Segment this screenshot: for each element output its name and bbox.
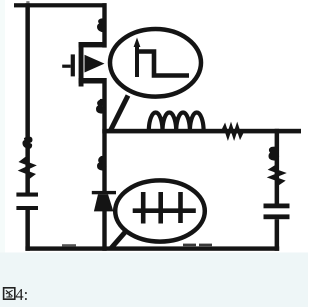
diode D1 anode triangle [94, 194, 114, 211]
wire output rail [102, 129, 301, 134]
wire middle rail diode-to-ground segment [102, 211, 106, 251]
wire middle rail source-to-diode segment [102, 78, 106, 191]
callout tail to diode node [111, 231, 127, 249]
wire top rail (input supply) [14, 3, 107, 7]
transistor Q1 body arrow [85, 55, 105, 73]
transistor Q1 drain lead [79, 42, 107, 47]
wire bottom rail (ground return) [25, 246, 279, 250]
callout balloon: switch node voltage waveform [110, 29, 201, 97]
inductor loop crossing tick 3 [188, 119, 192, 133]
resistor squiggle on output rail [223, 127, 243, 136]
svg-text:4:: 4: [15, 285, 28, 304]
waveform axis arrowhead [134, 38, 141, 48]
ripple tick 1 [141, 192, 146, 224]
inductor loop crossing tick 1 [161, 119, 165, 133]
bottom page tint strip [0, 253, 308, 307]
wire right rail lower [275, 219, 280, 251]
watermark smudge right B on bottom rail [199, 244, 212, 247]
label squiggle on left rail [22, 157, 33, 179]
waveform step trace [135, 52, 189, 76]
capacitor C1 (input) top plate [16, 193, 38, 197]
inductor L1 winding arcs [149, 113, 204, 131]
wire middle rail drain segment [102, 3, 106, 47]
capacitor C1 (input) bottom plate [16, 206, 38, 210]
transistor Q1 channel bar [79, 42, 84, 87]
watermark smudge left on bottom rail [62, 244, 76, 246]
wire left rail lower [25, 210, 30, 251]
label blob on left rail [22, 137, 32, 149]
wire left rail upper (input bus) [25, 3, 30, 192]
watermark smudge right A on bottom rail [183, 244, 196, 247]
capacitor C2 (output) bottom plate [264, 214, 290, 219]
waveform axis [135, 43, 139, 77]
transistor Q1 source lead [79, 78, 107, 84]
diode D1 cathode bar [92, 191, 116, 194]
transistor Q1 gate bar [71, 54, 75, 76]
junction nub above top rail [26, 1, 29, 3]
label squiggle on right rail [272, 166, 283, 185]
callout tail to switch node [111, 96, 129, 131]
label blob on switch node upper [97, 18, 106, 32]
capacitor C2 (output) top plate [264, 204, 290, 209]
callout balloon: inductor ripple current [115, 180, 205, 241]
inductor loop crossing tick 2 [174, 119, 178, 133]
ripple tick 2 [158, 192, 163, 224]
ripple tick 3 [178, 192, 183, 223]
left margin tint strip [0, 0, 5, 258]
label blob on right rail [269, 147, 280, 161]
label blob above diode [97, 156, 107, 171]
caption glyph box (tu character) [4, 288, 15, 299]
wire right rail upper (output bus) [275, 129, 280, 204]
transistor Q1 MOSFET gate lead [62, 65, 70, 68]
label blob below source lead [96, 99, 105, 114]
ripple baseline [133, 208, 196, 213]
